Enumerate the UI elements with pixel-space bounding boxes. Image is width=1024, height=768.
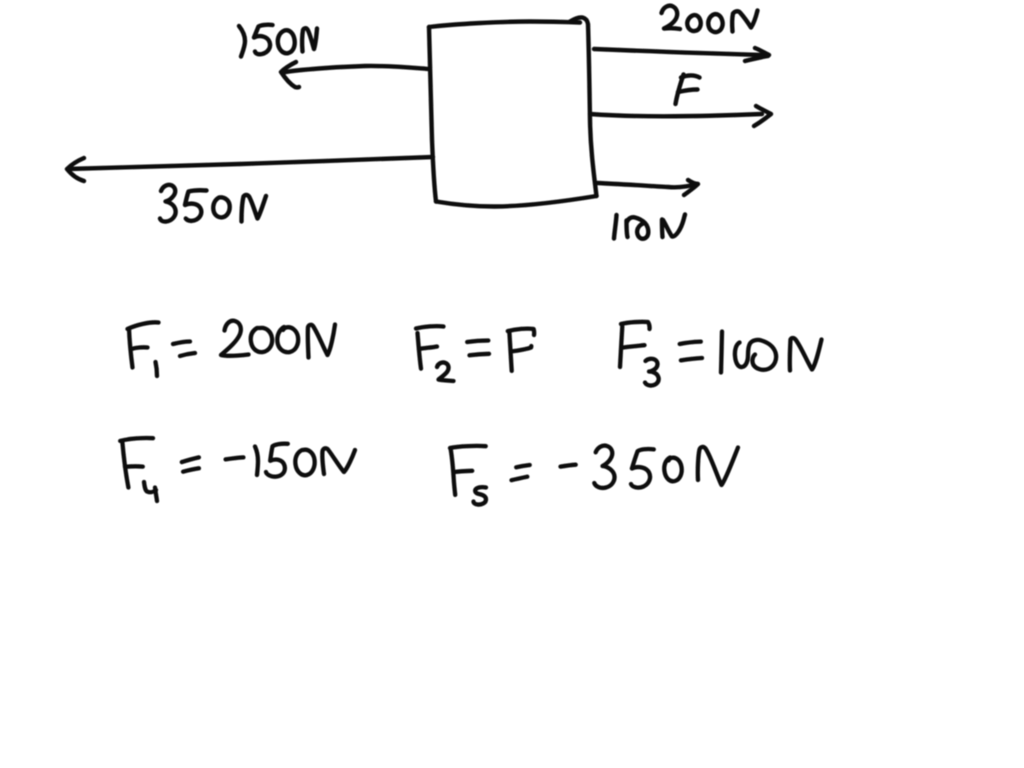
letter N: [790, 338, 822, 371]
label 100N: [614, 215, 685, 239]
digit 0: [708, 14, 722, 32]
F4: F top bar: [120, 438, 153, 441]
equals: [173, 342, 190, 345]
F5: F vertical: [451, 449, 456, 495]
F5: subscript 5 (s): [474, 487, 487, 504]
digit 5: [254, 25, 273, 55]
digit 1: [614, 215, 617, 239]
F3: F vertical: [620, 326, 622, 367]
digit 3: [160, 185, 176, 222]
digit 5: [266, 444, 288, 477]
minus: [561, 465, 576, 467]
F (rhs): [509, 333, 511, 371]
equals: [182, 457, 199, 462]
digit 1: [721, 332, 722, 373]
digit 2: [221, 321, 249, 356]
digits 00 squiggle: [627, 217, 649, 238]
F1: F top bar: [128, 322, 159, 329]
letter N: [302, 28, 317, 51]
equals: [467, 341, 488, 343]
digit 0: [687, 15, 701, 31]
equation F2 = F: [416, 326, 534, 381]
arrow 150N head: [281, 62, 299, 87]
digit 5: [631, 449, 654, 488]
digits 00 squiggle: [735, 340, 776, 370]
F4: F mid bar: [125, 464, 143, 469]
label F (force): [676, 75, 700, 105]
F2: F vertical: [418, 333, 422, 369]
label 350N: [160, 185, 266, 222]
minus: [226, 457, 244, 459]
digit 1: [255, 447, 258, 476]
digit 0: [277, 327, 298, 352]
equation F4 = -150N: [120, 438, 355, 501]
equation F5 = -350N: [450, 446, 738, 505]
letter N: [308, 325, 335, 358]
F5: F mid bar: [454, 471, 472, 472]
arrow 100N wire: [597, 183, 697, 187]
equals: [680, 342, 701, 344]
letter N: [322, 448, 355, 474]
digit 0: [251, 328, 272, 352]
F2: F mid bar: [419, 347, 437, 350]
arrow 200N wire: [594, 49, 762, 55]
letter N: [662, 215, 685, 238]
digit 0: [213, 197, 229, 217]
arrow F head: [754, 106, 771, 126]
letter N: [242, 195, 267, 222]
F3: subscript 3: [645, 359, 659, 386]
digit 2: [662, 6, 681, 29]
F2: F top bar: [416, 326, 444, 328]
F4: F vertical: [122, 442, 128, 488]
equation F1 = 200N: [128, 321, 336, 376]
F5: F top bar: [450, 446, 486, 448]
block (box): [429, 17, 597, 206]
F1: F vertical: [129, 329, 133, 368]
digit 0: [664, 458, 681, 482]
digit 5: [185, 190, 207, 221]
F1: F mid bar: [132, 347, 148, 349]
arrow 200N head: [745, 48, 769, 61]
F3: F top bar: [621, 322, 650, 329]
label 150N: [239, 25, 317, 57]
arrow F wire: [590, 114, 762, 116]
digit 1: [239, 26, 245, 57]
arrow 350N head: [67, 158, 84, 181]
arrow 100N head: [684, 180, 698, 195]
F1: subscript 1: [156, 362, 158, 376]
digit 0: [278, 30, 295, 53]
digit 0: [295, 450, 314, 476]
arrow 150N wire: [282, 66, 429, 73]
equation F3 = 100N: [620, 322, 822, 386]
F4: subscript 4: [144, 482, 157, 501]
letter N: [732, 11, 757, 32]
F2: subscript 2: [437, 362, 454, 381]
arrow 350N wire: [68, 157, 433, 169]
equals (slanted): [516, 465, 530, 467]
letter N: [698, 447, 738, 485]
F3: F mid bar: [623, 345, 644, 347]
digit 3: [594, 446, 614, 488]
label 200N: [662, 6, 758, 32]
